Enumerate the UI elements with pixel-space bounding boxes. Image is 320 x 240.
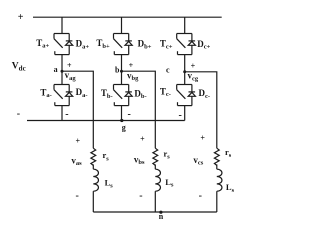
wire: rs to Ls (phase b) (154, 164, 156, 169)
svg-text:Db-: Db- (134, 88, 146, 100)
wire: Ls to neutral bus (phase c) (216, 191, 218, 212)
wire: Tb- to negative bus (121, 106, 123, 121)
wire: pole b to load branch (122, 71, 156, 148)
diode Dc- (188, 85, 195, 106)
wire: pole a to load branch (62, 71, 93, 148)
inductor Ls (phase b) (155, 169, 160, 191)
wire: rs to Ls (phase c) (216, 164, 218, 169)
svg-text:+: + (129, 61, 134, 70)
svg-text:vbg: vbg (127, 70, 139, 82)
svg-text:Tc+: Tc+ (160, 38, 173, 50)
diode Db- (125, 85, 132, 106)
node g (junction dot on negative bus) (120, 119, 123, 122)
svg-text:Ls: Ls (226, 182, 235, 194)
svg-text:+: + (67, 61, 72, 70)
svg-text:+: + (140, 134, 145, 143)
node a (junction dot) (61, 70, 64, 73)
wire: leg c top bus to Tc+ (184, 17, 186, 33)
svg-text:c: c (166, 65, 170, 74)
resistor rs (phase b) (153, 148, 158, 165)
wire: pole c to load branch (185, 72, 217, 148)
svg-text:Ta+: Ta+ (36, 38, 49, 50)
svg-text:vbs: vbs (134, 154, 145, 166)
svg-text:g: g (122, 123, 126, 132)
svg-text:Dc+: Dc+ (197, 39, 210, 51)
wire: rs to Ls (phase a) (92, 164, 94, 169)
svg-text:rs: rs (164, 148, 171, 160)
svg-text:Db+: Db+ (138, 38, 152, 50)
svg-text:Tb+: Tb+ (96, 38, 110, 50)
svg-text:Da-: Da- (76, 87, 88, 99)
svg-text:rs: rs (103, 150, 110, 162)
svg-text:+: + (18, 12, 24, 23)
wire: positive DC bus (33, 16, 222, 18)
svg-text:-: - (128, 109, 131, 120)
switch Tc+ (177, 34, 192, 55)
svg-text:Ta-: Ta- (40, 87, 51, 99)
wire: Ls to neutral bus (phase b) (154, 191, 156, 212)
svg-text:vag: vag (65, 70, 77, 82)
svg-text:Dc-: Dc- (199, 88, 211, 100)
svg-text:rs: rs (225, 147, 232, 159)
switch Tb- (114, 85, 129, 106)
diode Da- (66, 85, 73, 106)
wire: leg a top bus to Ta+ (61, 17, 63, 33)
svg-text:a: a (54, 65, 58, 74)
wire: Tb+ to pole node b to Tb- (121, 55, 123, 85)
svg-text:Tc-: Tc- (160, 86, 171, 98)
svg-text:b: b (115, 66, 120, 75)
resistor rs (phase a) (91, 148, 96, 165)
inductor Ls (phase c) (217, 169, 222, 191)
diode Db+ (125, 34, 132, 55)
switch Ta+ (54, 34, 69, 55)
switch Ta- (54, 85, 69, 106)
diode Dc+ (188, 34, 195, 55)
node c (junction dot) (183, 70, 186, 73)
wire: Ta- to negative bus (61, 106, 63, 121)
svg-text:Vdc: Vdc (12, 62, 26, 73)
svg-text:-: - (179, 110, 182, 121)
svg-text:Tb-: Tb- (101, 88, 113, 100)
svg-text:Da+: Da+ (76, 38, 90, 50)
svg-text:vcs: vcs (193, 155, 203, 167)
resistor rs (phase c) (214, 148, 219, 165)
svg-text:Ls: Ls (105, 178, 114, 190)
svg-text:-: - (17, 108, 20, 119)
svg-text:-: - (76, 190, 79, 201)
svg-text:+: + (200, 133, 205, 142)
svg-text:vas: vas (71, 155, 82, 167)
inductor Ls (phase a) (93, 169, 98, 191)
wire: Ls to neutral bus (phase a) (92, 191, 94, 212)
svg-text:Ls: Ls (165, 177, 174, 189)
switch Tc- (177, 85, 192, 106)
diode Da+ (66, 34, 73, 55)
node n (junction dot) (159, 211, 162, 214)
svg-text:+: + (76, 136, 81, 145)
svg-text:-: - (139, 190, 142, 201)
wire: Tc- to negative bus (184, 106, 186, 121)
wire: leg b top bus to Tb+ (121, 17, 123, 33)
wire: neutral bus n (93, 211, 217, 213)
wire: Ta+ to pole node a to Ta- (61, 55, 63, 85)
node b (junction dot) (120, 70, 123, 73)
wire: negative DC bus (net g) (27, 120, 185, 122)
svg-text:+: + (191, 62, 196, 71)
svg-text:-: - (199, 190, 202, 201)
wire: Tc+ to pole node c to Tc- (184, 55, 186, 85)
svg-text:n: n (159, 212, 164, 221)
switch Tb+ (114, 34, 129, 55)
svg-text:-: - (65, 109, 68, 120)
